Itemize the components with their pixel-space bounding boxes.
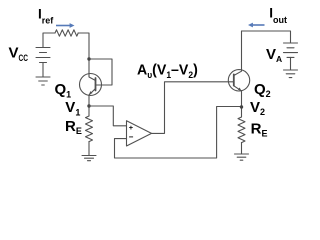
wire: resistor to Q1 collector corner	[78, 33, 89, 59]
svg-text:Iout: Iout	[269, 6, 287, 25]
svg-text:V2: V2	[250, 99, 265, 117]
svg-text:V1: V1	[65, 99, 80, 117]
svg-text:+: +	[129, 123, 134, 132]
ground (under RE left)	[82, 156, 96, 161]
svg-text:Q2: Q2	[254, 81, 271, 99]
battery VCC	[36, 48, 50, 78]
svg-text:VCC: VCC	[9, 45, 29, 64]
wire: Vcc battery top to resistor	[43, 33, 55, 48]
svg-text:Iref: Iref	[38, 6, 54, 25]
ground (under RE right)	[235, 154, 249, 160]
svg-text:−: −	[129, 132, 134, 141]
svg-text:VA: VA	[266, 46, 282, 64]
wire: Q2 collector to VA battery	[242, 31, 291, 43]
svg-text:Aυ(V1–V2): Aυ(V1–V2)	[137, 62, 198, 80]
battery VA	[284, 43, 298, 70]
svg-text:RE: RE	[65, 118, 82, 136]
node A junction dot (top of Q1)	[87, 57, 90, 60]
resistor RE left	[86, 116, 93, 142]
ground (under VA battery)	[284, 70, 298, 78]
resistor RE right	[238, 117, 245, 143]
node V2 junction dot	[240, 105, 243, 108]
node V1 junction dot	[87, 104, 90, 107]
wire: RE left to ground	[88, 142, 90, 156]
wire: diode connection loop (Q1 base to collector)	[89, 59, 112, 85]
ground (under VCC battery)	[36, 77, 50, 85]
transistor Q1	[80, 59, 102, 116]
svg-text:RE: RE	[251, 120, 268, 138]
wire: feedback V2 to op-amp - input	[115, 107, 242, 159]
arrow Iref (blue, pointing right)	[56, 23, 75, 28]
svg-text:Q1: Q1	[55, 81, 72, 99]
arrow Iout (blue, pointing left)	[248, 23, 265, 28]
transistor Q2	[228, 31, 249, 117]
wire: V1 to op-amp + input	[89, 106, 127, 126]
wire: op-amp output to Q2 base	[152, 82, 234, 134]
wire: RE right to ground	[241, 143, 243, 154]
resistor Iref (top zigzag)	[55, 30, 78, 36]
op-amp U1	[127, 121, 152, 146]
